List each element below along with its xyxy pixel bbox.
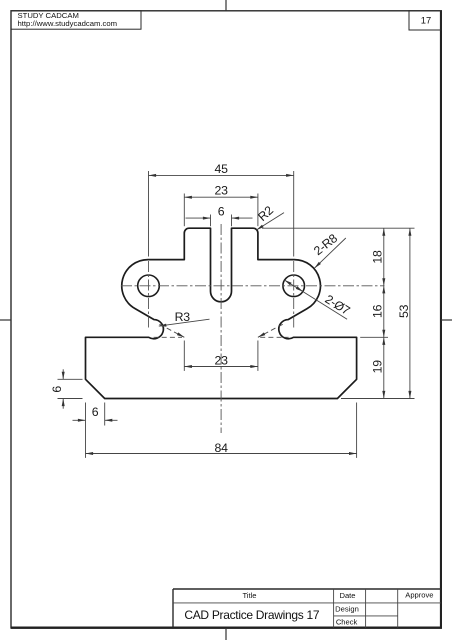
svg-text:Approve: Approve (405, 591, 433, 600)
label 2-R8 leader (314, 238, 345, 268)
label R3 leader (159, 319, 210, 326)
centerline vertical main (220, 224, 222, 433)
dim 53 (409, 228, 411, 398)
centering mark top (225, 0, 227, 11)
svg-text:R2: R2 (255, 203, 276, 224)
svg-text:53: 53 (397, 304, 411, 318)
hidden base line right (dashed) (260, 336, 289, 338)
label R2 leader (256, 213, 284, 230)
ext lines right (262, 227, 415, 229)
svg-text:18: 18 (371, 250, 385, 264)
svg-text:19: 19 (371, 360, 385, 374)
centering mark left (0, 319, 11, 321)
centerline horizontal through holes (121, 285, 385, 287)
svg-text:23: 23 (215, 353, 229, 367)
svg-text:R3: R3 (175, 310, 191, 324)
part outline (86, 228, 357, 398)
hole right Ø7 (283, 275, 305, 297)
dashed diagonal right (258, 324, 283, 337)
dim 23 top (184, 196, 258, 198)
svg-text:Title: Title (242, 591, 256, 600)
dim 6 horizontal chamfer (73, 419, 86, 421)
svg-text:2-R8: 2-R8 (311, 231, 340, 258)
dim 6 vertical chamfer (62, 369, 64, 379)
label 2-Ø7 diametral leader (284, 280, 347, 319)
svg-text:16: 16 (371, 304, 385, 318)
svg-text:45: 45 (215, 162, 229, 176)
svg-text:Design: Design (335, 604, 359, 613)
dim 6 slot (186, 217, 211, 219)
svg-text:17: 17 (421, 15, 431, 26)
dashed diagonal left (160, 324, 185, 337)
svg-text:CAD Practice Drawings 17: CAD Practice Drawings 17 (184, 608, 319, 622)
svg-text:6: 6 (218, 204, 225, 218)
dim 84 (86, 453, 357, 455)
svg-text:Check: Check (336, 618, 358, 627)
dim chain 18/16/19 (383, 228, 385, 398)
svg-text:6: 6 (92, 405, 99, 419)
dim 23 bottom (184, 366, 258, 368)
centering mark bottom (225, 628, 227, 640)
info box top-left (11, 11, 141, 29)
centerline vertical left hole (148, 261, 150, 330)
hidden base line left (dashed) (154, 336, 183, 338)
svg-text:http://www.studycadcam.com: http://www.studycadcam.com (18, 19, 118, 28)
svg-text:Date: Date (339, 591, 355, 600)
title block (173, 588, 441, 590)
svg-text:2-Ø7: 2-Ø7 (323, 292, 353, 318)
dim 45 (149, 174, 294, 176)
sheet number box (409, 11, 441, 30)
hole left Ø7 (138, 275, 160, 297)
svg-text:23: 23 (215, 184, 229, 198)
centerline vertical right hole (293, 261, 295, 330)
svg-text:6: 6 (50, 386, 64, 393)
centering mark right (441, 319, 452, 321)
svg-text:84: 84 (215, 441, 229, 455)
